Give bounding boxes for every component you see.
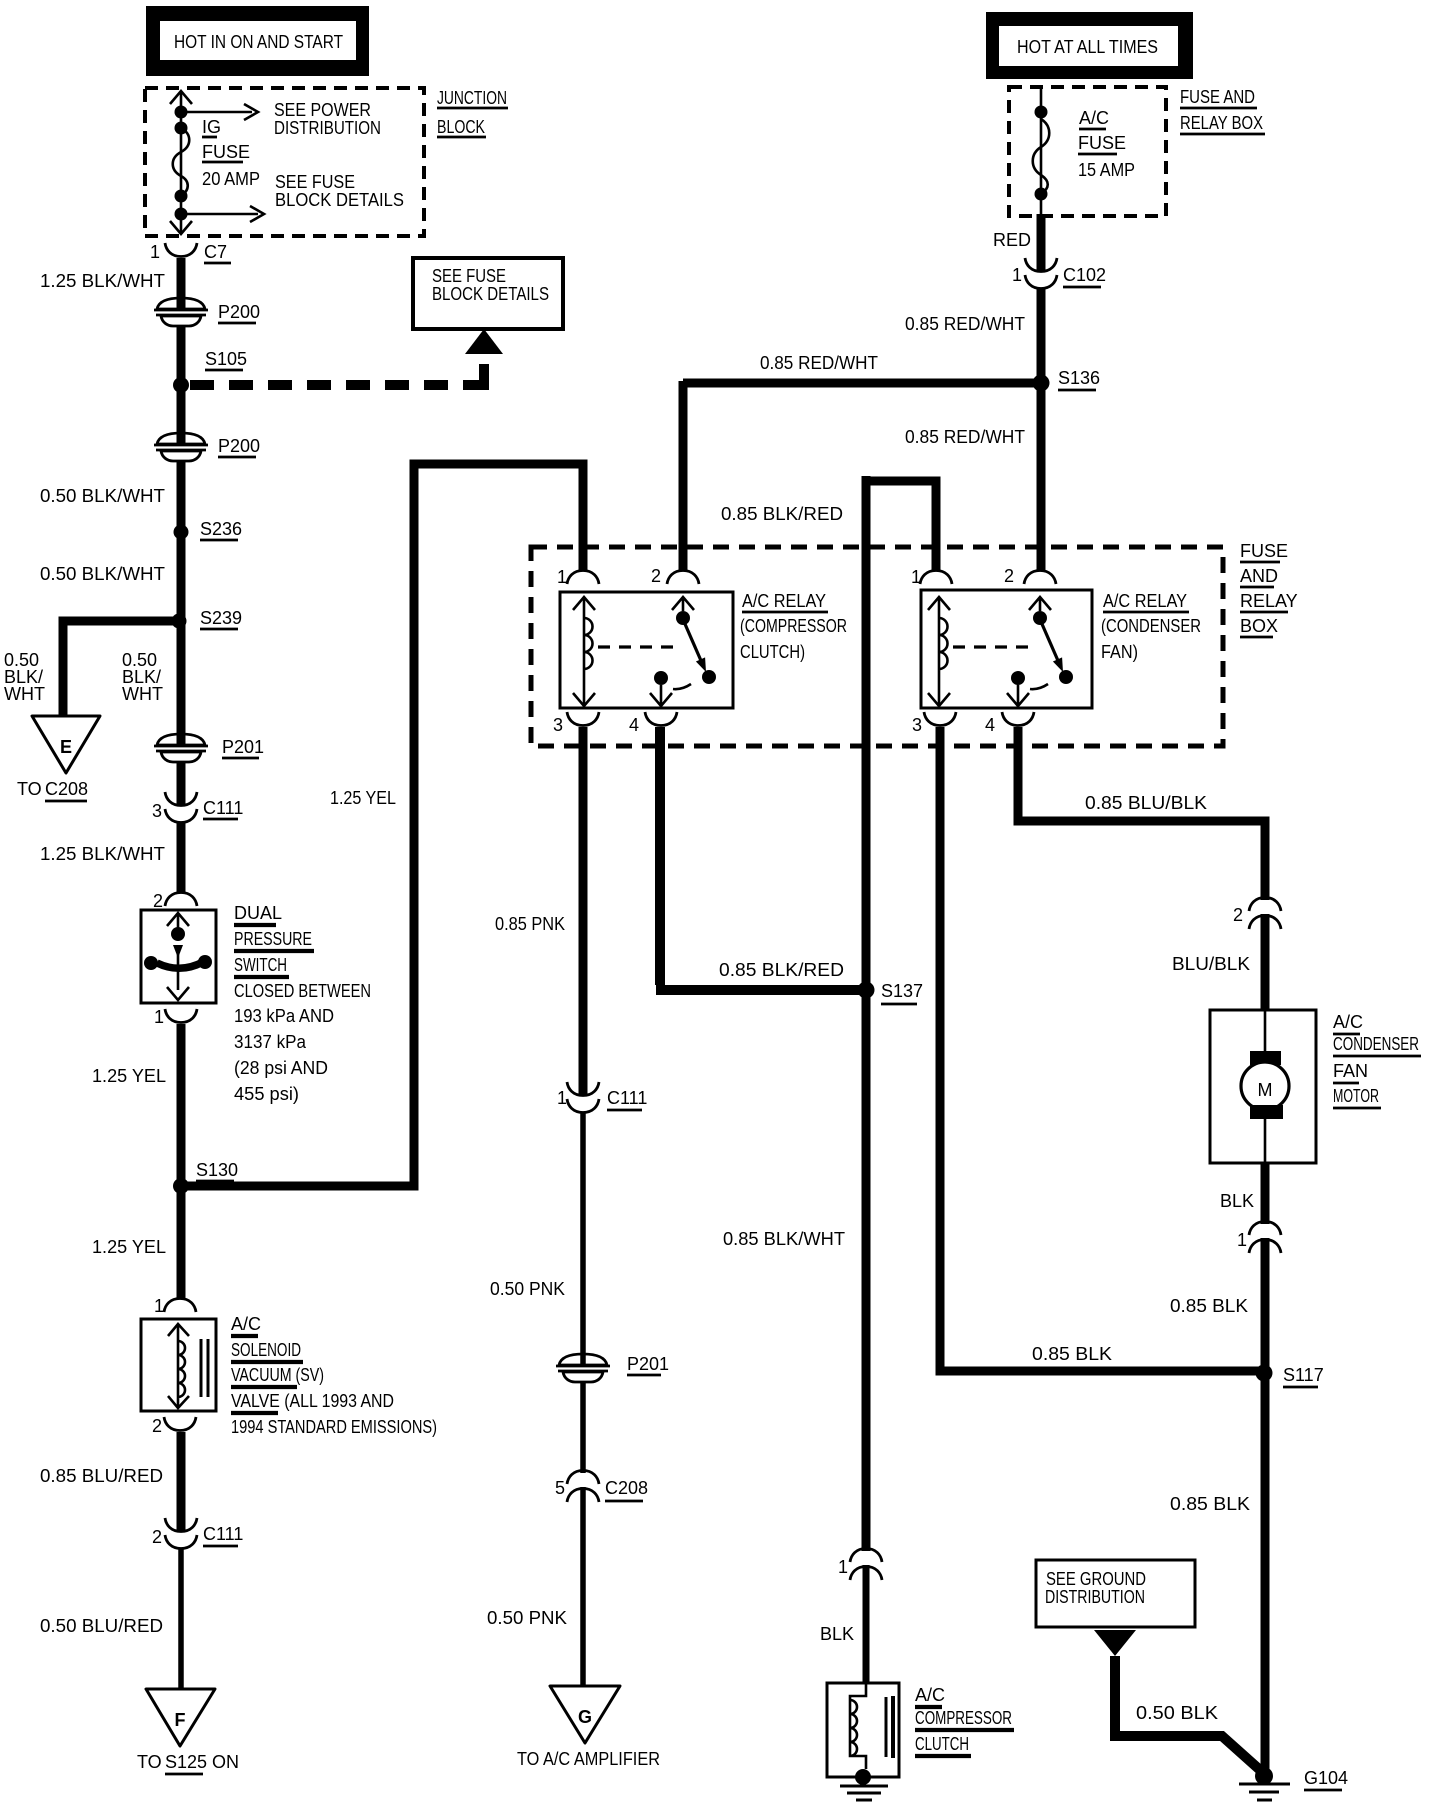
svg-text:WHT: WHT	[122, 684, 163, 704]
svg-text:1: 1	[1012, 265, 1022, 285]
svg-text:1.25 BLK/WHT: 1.25 BLK/WHT	[40, 271, 165, 291]
wire: long vertical 0.85 BLK/RED-BLK/WHT through S137 to clutch connector	[862, 476, 871, 1551]
wire: relay1 pin2 up to S136 line	[679, 381, 688, 570]
svg-text:0.85 BLU/BLK: 0.85 BLU/BLK	[1085, 793, 1207, 813]
ground G104 symbol	[1239, 1783, 1290, 1786]
A/C solenoid vacuum valve box	[141, 1319, 216, 1411]
svg-text:C111: C111	[607, 1088, 647, 1108]
connector C208	[567, 1471, 599, 1485]
svg-text:M: M	[1258, 1080, 1273, 1100]
ground G104 dot	[1255, 1767, 1273, 1785]
svg-text:0.85 BLU/RED: 0.85 BLU/RED	[40, 1466, 163, 1486]
fan inline connector 2	[1249, 898, 1281, 912]
wire: horizontal into S137	[656, 985, 866, 995]
clutch inline connector	[850, 1549, 882, 1563]
clutch core bars	[885, 1697, 888, 1757]
wire: relay2 pin3 down and right to S117 0.85 BLK	[940, 727, 1262, 1371]
svg-text:S136: S136	[1058, 368, 1100, 388]
splice S136	[1033, 375, 1050, 392]
wire: motor box to fan connector1 BLK	[1261, 1162, 1270, 1224]
wire: 0.50 BLU/RED C111 to F	[178, 1548, 184, 1690]
relay U2 switch arm with arrowhead	[1042, 624, 1059, 663]
svg-text:(28 psi AND: (28 psi AND	[234, 1058, 328, 1078]
svg-text:BLU/BLK: BLU/BLK	[1172, 954, 1250, 974]
relay U2 pin3 connector	[924, 712, 956, 726]
svg-text:P200: P200	[218, 302, 260, 322]
svg-text:1.25 BLK/WHT: 1.25 BLK/WHT	[40, 844, 165, 864]
svg-text:BOX: BOX	[1240, 616, 1278, 636]
A/C fuse internal wire	[1040, 88, 1043, 215]
svg-text:P201: P201	[222, 737, 264, 757]
svg-text:0.85 RED/WHT: 0.85 RED/WHT	[760, 353, 878, 373]
svg-text:G: G	[578, 1707, 592, 1727]
svg-text:1: 1	[1237, 1230, 1247, 1250]
svg-text:C111: C111	[203, 798, 243, 818]
relay U2 pin4 connector	[1002, 712, 1034, 726]
svg-text:S137: S137	[881, 981, 923, 1001]
dual pressure switch pin 2 connector	[165, 893, 197, 907]
wire: 0.85 RED/WHT horizontal S136 to relay1 pin2	[683, 379, 1041, 388]
svg-text:C102: C102	[1063, 265, 1106, 285]
relay U2 pin4 down arrow	[1007, 685, 1029, 706]
relay U2 contact dot pin4	[1011, 671, 1025, 685]
svg-text:G104: G104	[1304, 1768, 1348, 1788]
valve core bars	[200, 1339, 203, 1397]
svg-text:DISTRIBUTION: DISTRIBUTION	[274, 118, 381, 138]
svg-text:S117: S117	[1283, 1365, 1324, 1385]
svg-text:C208: C208	[45, 779, 88, 799]
relay U2 coil	[928, 597, 950, 610]
wire: P200 to P201 with S236 S239 splices	[177, 461, 186, 746]
svg-text:FAN): FAN)	[1101, 642, 1138, 662]
connector C111 middle	[567, 1082, 599, 1096]
splice S137	[858, 982, 875, 999]
svg-text:20 AMP: 20 AMP	[202, 169, 260, 189]
wire: P201 to C111	[177, 762, 186, 806]
svg-text:0.50 BLK/WHT: 0.50 BLK/WHT	[40, 564, 165, 584]
svg-text:0.85 BLK: 0.85 BLK	[1032, 1344, 1112, 1364]
svg-text:0.85 RED/WHT: 0.85 RED/WHT	[905, 314, 1025, 334]
svg-text:S125: S125	[165, 1752, 207, 1772]
wire: relay1 pin3 down 0.85 PNK	[579, 727, 588, 1096]
junction block node dot	[175, 208, 188, 221]
arrow to SEE FUSE BLOCK DETAILS	[187, 206, 264, 222]
svg-text:DISTRIBUTION: DISTRIBUTION	[1045, 1587, 1145, 1607]
HOT IN ON AND START power box	[146, 6, 369, 76]
svg-text:RED: RED	[993, 230, 1031, 250]
motor circle M	[1241, 1062, 1289, 1110]
junction block node dot	[175, 190, 188, 203]
wire: A/C fuse to C102 RED	[1037, 214, 1046, 272]
relay U1 contact dot pin4	[654, 671, 668, 685]
grommet P201 middle	[556, 1354, 610, 1382]
svg-text:1.25 YEL: 1.25 YEL	[330, 788, 396, 808]
svg-text:PRESSURE: PRESSURE	[234, 929, 312, 949]
fuse and relay box dashed small (A/C fuse)	[1009, 87, 1166, 216]
wire: see-ground-distribution lead 0.50 BLK to G104	[1115, 1656, 1260, 1770]
svg-text:0.50 BLK/WHT: 0.50 BLK/WHT	[40, 486, 165, 506]
grommet P201	[154, 734, 208, 762]
wire: relay1 pin4 down to S137 0.85 BLK/RED	[655, 727, 665, 985]
motor lead top	[1264, 1011, 1267, 1053]
junction block bottom arrow	[170, 221, 192, 234]
A/C condenser fan motor box	[1210, 1010, 1316, 1163]
relay U1 contact dot right	[702, 670, 716, 684]
svg-text:BLOCK DETAILS: BLOCK DETAILS	[432, 284, 549, 304]
switch right contact dot	[198, 955, 212, 969]
wire: 1.25 YEL S130 up and over to relay 1 pin 1	[181, 464, 583, 1186]
svg-text:0.50 BLU/RED: 0.50 BLU/RED	[40, 1616, 163, 1636]
svg-text:ON: ON	[212, 1752, 239, 1772]
svg-text:1: 1	[911, 567, 921, 587]
svg-text:A/C RELAY: A/C RELAY	[1103, 591, 1187, 611]
relay U1 mechanical link dashes	[598, 645, 676, 648]
svg-text:0.85 BLK: 0.85 BLK	[1170, 1494, 1250, 1514]
svg-text:CONDENSER: CONDENSER	[1333, 1034, 1419, 1054]
svg-text:0.50 PNK: 0.50 PNK	[490, 1279, 565, 1299]
arrow from see ground box	[1094, 1630, 1136, 1656]
A/C compressor clutch box	[827, 1683, 899, 1777]
svg-text:2: 2	[651, 566, 661, 586]
svg-text:1.25 YEL: 1.25 YEL	[92, 1066, 166, 1086]
switch internal top arrow	[167, 913, 189, 928]
svg-text:455 psi): 455 psi)	[234, 1084, 299, 1104]
svg-text:SOLENOID: SOLENOID	[231, 1340, 301, 1360]
svg-text:(COMPRESSOR: (COMPRESSOR	[740, 616, 847, 636]
svg-text:CLUTCH): CLUTCH)	[740, 642, 805, 662]
svg-text:S105: S105	[205, 349, 247, 369]
svg-text:SEE FUSE: SEE FUSE	[275, 172, 355, 192]
svg-text:S130: S130	[196, 1160, 238, 1180]
svg-text:0.50 PNK: 0.50 PNK	[487, 1608, 567, 1628]
svg-text:SEE GROUND: SEE GROUND	[1046, 1569, 1146, 1589]
svg-text:0.85 PNK: 0.85 PNK	[495, 914, 565, 934]
clutch ground symbol	[840, 1785, 888, 1788]
HOT AT ALL TIMES power box	[986, 12, 1193, 79]
svg-text:S236: S236	[200, 519, 242, 539]
arrow to SEE POWER DISTRIBUTION	[187, 104, 258, 120]
A/C solenoid vacuum valve pin 1 connector	[164, 1299, 196, 1313]
svg-text:HOT AT ALL TIMES: HOT AT ALL TIMES	[1017, 37, 1158, 57]
junction block dashed box	[145, 88, 424, 236]
svg-text:IG: IG	[202, 117, 221, 137]
relay U2 mechanical link dashes	[953, 645, 1031, 648]
switch internal down arrowhead	[173, 945, 183, 958]
relay U1 pin4 connector	[645, 712, 677, 726]
A/C fuse squiggle 15 AMP	[1033, 119, 1050, 194]
relay U1 pin3 connector	[567, 712, 599, 726]
svg-text:1: 1	[154, 1296, 164, 1316]
relay U1 A/C relay compressor clutch box	[560, 592, 733, 708]
triangle connector E	[32, 716, 100, 773]
svg-text:A/C: A/C	[915, 1685, 945, 1705]
IG fuse squiggle 20 AMP	[173, 128, 190, 196]
svg-text:193 kPa AND: 193 kPa AND	[234, 1006, 334, 1026]
svg-text:C208: C208	[605, 1478, 648, 1498]
wire: C102 through S136 to relay2 pin2	[1037, 288, 1046, 570]
switch left contact dot	[144, 956, 158, 970]
connector C102	[1025, 258, 1057, 272]
svg-text:2: 2	[1004, 566, 1014, 586]
relay U1 contact tail	[673, 684, 691, 689]
svg-text:0.85 BLK/RED: 0.85 BLK/RED	[719, 960, 844, 980]
splice S117	[1256, 1365, 1273, 1382]
relay U2 pin2 connector	[1024, 571, 1056, 585]
svg-text:FUSE: FUSE	[202, 142, 250, 162]
svg-text:FUSE AND: FUSE AND	[1180, 87, 1255, 107]
relay U2 switch common arrow	[1029, 597, 1051, 611]
svg-text:1: 1	[154, 1007, 164, 1027]
svg-text:JUNCTION: JUNCTION	[437, 88, 507, 108]
svg-text:BLK: BLK	[820, 1624, 854, 1644]
svg-text:SEE FUSE: SEE FUSE	[432, 266, 506, 286]
arrow into see fuse block details box	[465, 329, 503, 354]
svg-text:VALVE (ALL 1993 AND: VALVE (ALL 1993 AND	[231, 1391, 394, 1411]
junction block node dot	[175, 106, 188, 119]
svg-text:1: 1	[557, 1088, 567, 1108]
svg-text:AND: AND	[1240, 566, 1278, 586]
svg-text:4: 4	[629, 715, 639, 735]
connector C111 pin 2	[165, 1518, 197, 1532]
svg-text:5: 5	[555, 1478, 565, 1498]
dashed wire S105 to fuse block details	[190, 380, 484, 390]
svg-text:FAN: FAN	[1333, 1061, 1368, 1081]
svg-text:2: 2	[152, 1416, 162, 1436]
relay U1 coil	[573, 597, 595, 610]
A/C fuse node dot	[1035, 188, 1048, 201]
svg-text:CLUTCH: CLUTCH	[915, 1734, 969, 1754]
wire: C208 to G triangle 0.50 PNK	[580, 1487, 586, 1686]
svg-text:A/C: A/C	[1333, 1012, 1363, 1032]
svg-text:SWITCH: SWITCH	[234, 955, 287, 975]
svg-text:3: 3	[152, 801, 162, 821]
svg-text:DUAL: DUAL	[234, 903, 282, 923]
motor lead bottom	[1264, 1119, 1267, 1162]
svg-text:SEE POWER: SEE POWER	[274, 100, 371, 120]
SEE FUSE BLOCK DETAILS box	[413, 258, 563, 329]
wire: 1.25 BLK/WHT from C7 to P200	[177, 258, 186, 311]
svg-text:C111: C111	[203, 1524, 243, 1544]
svg-text:F: F	[175, 1710, 186, 1730]
svg-text:1994 STANDARD EMISSIONS): 1994 STANDARD EMISSIONS)	[231, 1417, 437, 1437]
valve coil	[178, 1324, 185, 1408]
svg-text:0.50 BLK: 0.50 BLK	[1136, 1703, 1218, 1723]
wire: 0.85 BLU/RED valve pin2 to C111	[177, 1432, 186, 1532]
grommet P200 second	[154, 433, 208, 461]
svg-text:TO A/C AMPLIFIER: TO A/C AMPLIFIER	[517, 1749, 660, 1769]
svg-text:2: 2	[152, 1527, 162, 1547]
svg-text:1: 1	[838, 1557, 848, 1577]
wire: fan connector1 through S117 to G104 0.85 BLK	[1261, 1238, 1270, 1773]
svg-text:0.85 BLK/WHT: 0.85 BLK/WHT	[723, 1229, 845, 1249]
triangle connector G	[550, 1686, 620, 1743]
relay U1 pin1 connector	[567, 571, 599, 585]
wire: fan connector2 to motor box	[1261, 914, 1270, 1011]
svg-text:BLK: BLK	[1220, 1191, 1254, 1211]
svg-text:A/C: A/C	[1079, 108, 1109, 128]
valve internal top arrow	[168, 1324, 189, 1336]
svg-text:3: 3	[553, 715, 563, 735]
svg-text:15 AMP: 15 AMP	[1078, 160, 1135, 180]
svg-text:FUSE: FUSE	[1078, 133, 1126, 153]
clutch ground dot	[855, 1769, 871, 1785]
svg-text:0.85 BLK/RED: 0.85 BLK/RED	[721, 504, 843, 524]
svg-text:2: 2	[153, 891, 163, 911]
svg-text:3: 3	[912, 715, 922, 735]
svg-text:COMPRESSOR: COMPRESSOR	[915, 1708, 1012, 1728]
motor brush top	[1250, 1051, 1281, 1065]
relay U1 pin2 connector	[667, 571, 699, 585]
relay U2 pin1 connector	[920, 571, 952, 585]
relay U1 switch pivot dot	[676, 611, 690, 625]
svg-text:BLOCK: BLOCK	[437, 117, 485, 137]
relay U1 switch arm with arrowhead	[685, 624, 702, 663]
svg-text:CLOSED BETWEEN: CLOSED BETWEEN	[234, 981, 371, 1001]
svg-text:A/C: A/C	[231, 1314, 261, 1334]
svg-text:2: 2	[1233, 905, 1243, 925]
svg-text:E: E	[60, 737, 72, 757]
wire: relay2 pin1 up and left 0.85 BLK/RED	[866, 481, 936, 570]
svg-text:1: 1	[557, 567, 567, 587]
relay U1 pin4 down arrow	[650, 685, 672, 706]
junction block internal wire	[180, 92, 183, 234]
wire: clutch connector to clutch box BLK	[863, 1565, 870, 1684]
wire: P201 to C208	[580, 1382, 586, 1473]
svg-text:MOTOR: MOTOR	[1333, 1086, 1379, 1106]
fuse and relay box dashed enclosure	[531, 547, 1223, 746]
motor brush bottom	[1250, 1105, 1283, 1119]
relay U2 switch pivot dot	[1033, 611, 1047, 625]
dual pressure switch pin 1 connector	[165, 1009, 197, 1023]
switch internal dot	[171, 927, 185, 941]
relay U1 switch common arrow	[672, 597, 694, 611]
clutch coil	[850, 1684, 866, 1769]
switch internal bottom arrow	[167, 987, 189, 1000]
svg-text:A/C RELAY: A/C RELAY	[742, 591, 826, 611]
A/C fuse node dot	[1035, 106, 1048, 119]
svg-text:VACUUM (SV): VACUUM (SV)	[231, 1365, 324, 1385]
valve internal bottom arrow	[168, 1396, 189, 1408]
svg-text:TO: TO	[137, 1752, 162, 1772]
triangle connector F	[146, 1689, 215, 1746]
wire: C111 to P201 0.50 PNK	[580, 1112, 586, 1366]
A/C solenoid vacuum valve pin 2 connector	[164, 1417, 196, 1431]
svg-text:1: 1	[150, 242, 160, 262]
wire: 1.25 YEL switch pin1 to solenoid valve pin1 via S130	[177, 1024, 186, 1298]
svg-text:3137 kPa: 3137 kPa	[234, 1032, 307, 1052]
svg-text:FUSE: FUSE	[1240, 541, 1288, 561]
svg-text:0.85 BLK: 0.85 BLK	[1170, 1296, 1248, 1316]
wire: P200 to S105	[177, 327, 186, 445]
svg-text:TO: TO	[17, 779, 42, 799]
relay U2 A/C relay condenser fan box	[921, 590, 1092, 708]
svg-text:WHT: WHT	[4, 684, 45, 704]
connector C7	[165, 243, 197, 257]
connector C111 pin 3	[165, 792, 197, 806]
svg-text:BLOCK DETAILS: BLOCK DETAILS	[275, 190, 404, 210]
relay U2 contact tail	[1030, 684, 1048, 689]
switch moving contact bar	[157, 962, 203, 968]
svg-text:P200: P200	[218, 436, 260, 456]
junction block node dot	[175, 122, 188, 135]
relay U2 contact dot right	[1059, 670, 1073, 684]
SEE GROUND DISTRIBUTION box	[1036, 1560, 1195, 1627]
junction block top arrow	[170, 91, 192, 104]
wire: relay2 pin4 to condenser fan 0.85 BLU/BLK	[1018, 727, 1265, 900]
grommet P200	[154, 298, 208, 326]
svg-text:(CONDENSER: (CONDENSER	[1101, 616, 1201, 636]
svg-text:4: 4	[985, 715, 995, 735]
svg-text:1.25 YEL: 1.25 YEL	[92, 1237, 166, 1257]
fan inline connector 1	[1249, 1222, 1281, 1236]
svg-text:RELAY: RELAY	[1240, 591, 1298, 611]
wire: S239 branch to E triangle	[63, 621, 181, 716]
svg-text:0.85 RED/WHT: 0.85 RED/WHT	[905, 427, 1025, 447]
wire: C111 to dual pressure switch pin 2	[177, 822, 186, 892]
dual pressure switch box	[141, 910, 216, 1003]
svg-text:S239: S239	[200, 608, 242, 628]
svg-text:HOT IN ON AND START: HOT IN ON AND START	[174, 32, 343, 52]
svg-text:C7: C7	[204, 242, 227, 262]
svg-text:RELAY BOX: RELAY BOX	[1180, 113, 1263, 133]
svg-text:P201: P201	[627, 1354, 669, 1374]
